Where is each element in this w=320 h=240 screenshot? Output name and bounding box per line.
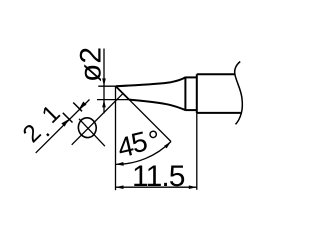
- bevel 45-degree extension ray: [129, 100, 171, 142]
- cylinder front face: [196, 74, 198, 113]
- left extension line of 11.5 (from apex): [115, 86, 117, 190]
- dia-2 dimension line: [103, 49, 105, 114]
- 2.1 extension tick 1: [63, 113, 73, 123]
- 2.1 extension tick 2: [73, 103, 82, 112]
- 45-degree arc: [116, 142, 171, 165]
- 45-degree arc arrow left: [115, 162, 123, 166]
- 2.1 dimension line: [36, 100, 90, 153]
- svg-text:11.5: 11.5: [132, 160, 185, 193]
- collar bottom edge: [185, 109, 196, 111]
- 11.5 arrow right: [189, 185, 197, 189]
- dia-2 arrow up: [102, 100, 106, 108]
- bevel face edge: [116, 86, 129, 99]
- slash line through face ellipse: [79, 119, 105, 146]
- tip top contour: [116, 77, 186, 86]
- 11.5 arrow left: [116, 185, 124, 189]
- break line squiggle: [235, 62, 243, 125]
- cylinder top edge: [197, 73, 235, 75]
- right extension line of 11.5: [196, 74, 198, 190]
- 2.1 arrow pointing down-left at tick 2: [79, 102, 87, 110]
- collar left edge: [184, 77, 186, 111]
- bevel face ellipse: [77, 116, 98, 139]
- dia-2 arrow down: [102, 78, 106, 86]
- collar top edge: [185, 76, 196, 78]
- dia-2 top extension line: [98, 85, 115, 87]
- 11.5 dimension line: [116, 186, 197, 188]
- 45-degree arc arrow right: [164, 142, 171, 149]
- 2.1 arrow pointing up-right at tick 1: [61, 119, 69, 127]
- svg-text:ø2: ø2: [75, 47, 108, 82]
- cylinder bottom edge: [197, 112, 241, 114]
- bevel face diameter line through ellipse: [72, 94, 123, 145]
- dia-2 bottom extension line: [97, 99, 129, 101]
- tip bottom contour: [129, 100, 185, 111]
